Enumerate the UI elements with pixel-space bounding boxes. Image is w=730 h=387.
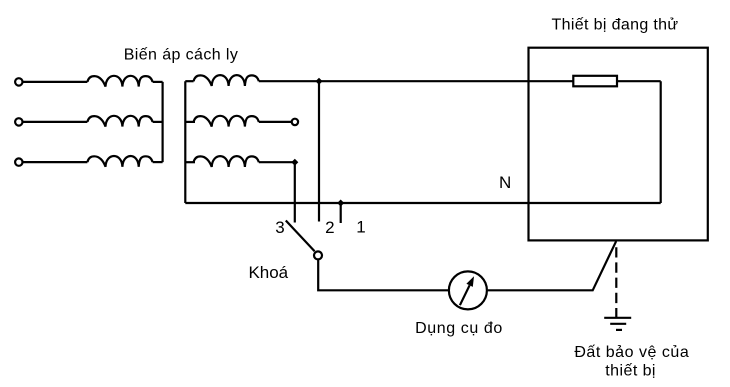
wire secondary row2 to coil <box>185 121 195 123</box>
primary common bus <box>162 82 164 162</box>
wire line 3 drop <box>294 162 296 222</box>
wire secondary row1 to coil <box>185 80 193 82</box>
primary winding 3 <box>87 156 152 167</box>
wire L1 from coil to equipment <box>259 80 574 82</box>
meter needle <box>460 285 470 305</box>
wire primary L3 <box>23 161 88 163</box>
wire line 1 stub <box>340 203 342 223</box>
wire primary coil1 to bus <box>153 81 163 83</box>
equipment box Thiet bi dang thu <box>529 48 708 241</box>
svg-text:1: 1 <box>356 218 365 237</box>
svg-text:Biến áp cách ly: Biến áp cách ly <box>124 47 239 64</box>
primary winding 2 <box>87 116 152 127</box>
wire resistor to inner drop <box>617 80 661 82</box>
wire row3 to tap <box>259 161 295 163</box>
secondary winding 1 <box>194 75 259 86</box>
wire primary coil3 to bus <box>153 161 163 163</box>
wire inner vertical drop to neutral <box>660 81 662 203</box>
svg-text:thiết bị: thiết bị <box>605 363 656 380</box>
resistor R (load inside equipment) <box>573 76 617 87</box>
switch blade <box>286 221 315 252</box>
wire line 2 drop <box>318 81 320 221</box>
svg-text:Đất bảo vệ của: Đất bảo vệ của <box>574 344 689 361</box>
ground symbol bar 1 <box>604 317 631 319</box>
svg-text:3: 3 <box>275 218 284 237</box>
wire primary coil2 to bus <box>153 121 163 123</box>
terminal circle primary L2 <box>15 118 22 125</box>
terminal circle primary L3 <box>15 158 22 165</box>
terminal circle primary L1 <box>15 78 22 85</box>
wire primary L1 <box>23 81 88 83</box>
switch pivot circle <box>314 251 322 259</box>
junction node line3 tap <box>291 159 298 166</box>
wire primary L2 <box>23 121 88 123</box>
ground symbol bar 2 <box>610 323 626 325</box>
primary winding 1 <box>87 76 152 87</box>
meter needle arrowhead <box>466 276 474 287</box>
svg-text:2: 2 <box>325 218 334 237</box>
dashed earth lead <box>615 247 617 317</box>
svg-text:Khoá: Khoá <box>248 263 288 282</box>
svg-text:Dụng cụ đo: Dụng cụ đo <box>415 320 503 337</box>
junction node line2 tap <box>316 78 323 85</box>
secondary winding 2 <box>194 116 259 127</box>
secondary winding 3 <box>194 156 259 167</box>
svg-text:N: N <box>499 173 511 192</box>
terminal circle secondary row2 <box>292 119 298 125</box>
wire row2 to terminal <box>259 121 292 123</box>
ground symbol bar 3 <box>616 329 622 331</box>
wire secondary row3 to coil <box>185 161 195 163</box>
secondary left bus <box>184 81 186 203</box>
wire meter to earth point <box>488 241 616 290</box>
wire switch to meter <box>318 259 449 290</box>
junction node line1 tap <box>337 200 344 207</box>
wire neutral bottom bus <box>185 202 660 204</box>
svg-text:Thiết bị đang thử: Thiết bị đang thử <box>552 17 679 34</box>
meter M1 circle <box>449 271 487 309</box>
